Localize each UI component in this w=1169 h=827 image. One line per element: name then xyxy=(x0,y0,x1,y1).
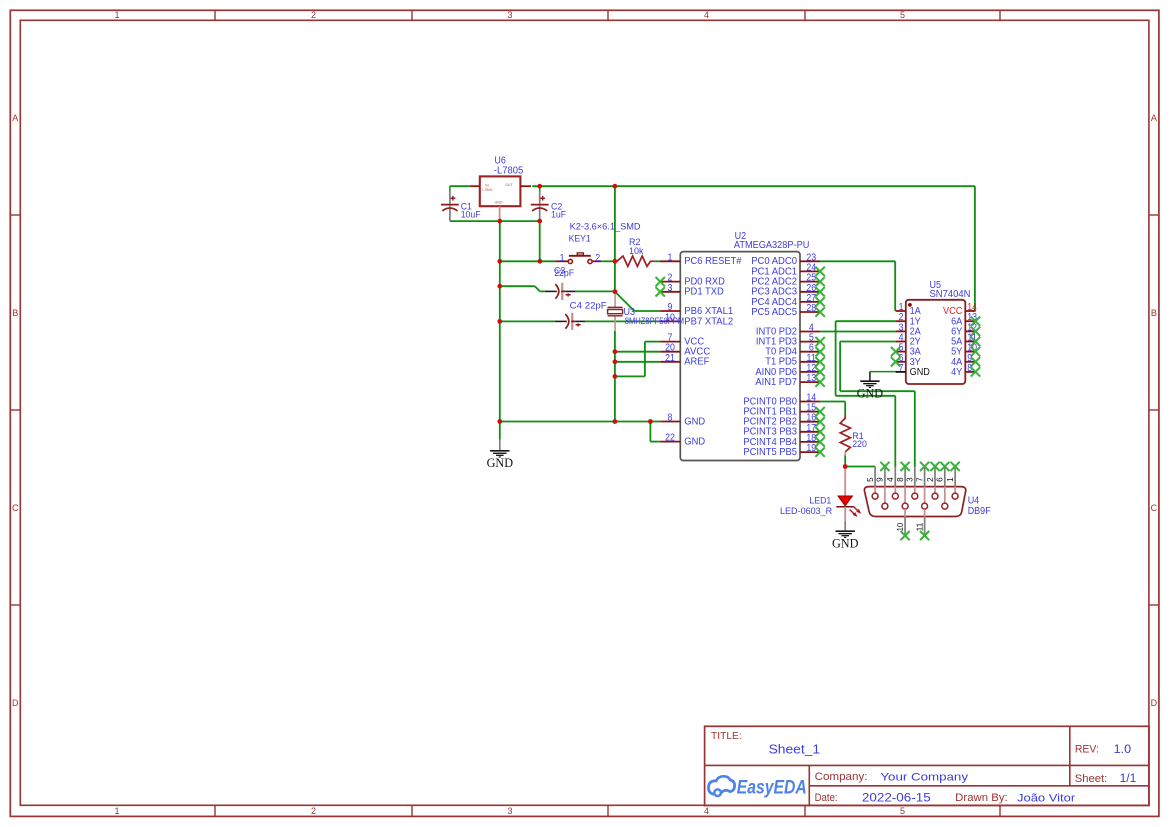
svg-text:3: 3 xyxy=(507,806,512,816)
svg-text:11: 11 xyxy=(915,523,925,532)
svg-text:João Vitor: João Vitor xyxy=(1017,792,1075,804)
svg-text:PC6 RESET#: PC6 RESET# xyxy=(684,256,741,267)
svg-text:GND: GND xyxy=(857,386,884,400)
svg-text:PD1 TXD: PD1 TXD xyxy=(684,287,724,298)
svg-text:8: 8 xyxy=(895,477,905,482)
svg-text:7: 7 xyxy=(899,363,904,374)
svg-text:OUT: OUT xyxy=(505,183,513,187)
svg-text:2: 2 xyxy=(311,806,316,816)
svg-text:GND: GND xyxy=(910,367,930,378)
svg-text:22: 22 xyxy=(665,433,675,444)
svg-text:L7805: L7805 xyxy=(482,188,492,192)
svg-text:10: 10 xyxy=(895,523,905,532)
svg-text:Company:: Company: xyxy=(815,771,868,783)
svg-text:C4 22pF: C4 22pF xyxy=(570,301,607,312)
svg-text:2: 2 xyxy=(311,10,316,20)
svg-text:2: 2 xyxy=(595,253,600,264)
svg-text:9: 9 xyxy=(875,477,885,482)
svg-text:PC5 ADC5: PC5 ADC5 xyxy=(751,307,797,318)
svg-text:A: A xyxy=(12,113,18,123)
svg-text:SN7404N: SN7404N xyxy=(930,289,971,300)
svg-text:4: 4 xyxy=(704,10,709,20)
svg-text:8: 8 xyxy=(668,413,673,424)
svg-text:9: 9 xyxy=(668,302,673,313)
svg-text:Sheet_1: Sheet_1 xyxy=(769,741,821,756)
svg-text:21: 21 xyxy=(665,353,675,364)
svg-text:8MHZ8PF50PPM: 8MHZ8PF50PPM xyxy=(625,316,684,327)
svg-text:2022-06-15: 2022-06-15 xyxy=(862,792,931,804)
svg-text:220: 220 xyxy=(852,439,867,450)
svg-text:TITLE:: TITLE: xyxy=(711,731,742,742)
svg-text:-L7805: -L7805 xyxy=(494,166,524,177)
svg-text:5: 5 xyxy=(900,806,905,816)
svg-text:D: D xyxy=(1151,698,1158,708)
svg-text:EasyEDA: EasyEDA xyxy=(737,778,807,799)
svg-text:Date:: Date: xyxy=(815,792,838,804)
svg-text:Sheet:: Sheet: xyxy=(1075,773,1108,785)
svg-text:K2-3.6×6.1_SMD: K2-3.6×6.1_SMD xyxy=(570,222,641,232)
svg-text:B: B xyxy=(12,308,18,318)
svg-text:1: 1 xyxy=(114,10,119,20)
svg-text:7: 7 xyxy=(914,477,924,482)
svg-text:2: 2 xyxy=(925,477,935,482)
svg-text:PCINT5 PB5: PCINT5 PB5 xyxy=(743,447,797,458)
svg-text:KEY1: KEY1 xyxy=(569,232,591,243)
svg-text:4Y: 4Y xyxy=(951,367,962,378)
svg-text:A: A xyxy=(1151,113,1157,123)
svg-text:4: 4 xyxy=(704,806,709,816)
svg-text:22pF: 22pF xyxy=(554,268,574,279)
svg-text:ATMEGA328P-PU: ATMEGA328P-PU xyxy=(734,240,810,251)
svg-text:3: 3 xyxy=(507,10,512,20)
svg-text:PB6 XTAL1: PB6 XTAL1 xyxy=(684,306,733,317)
svg-text:1.0: 1.0 xyxy=(1114,742,1132,756)
svg-text:10k: 10k xyxy=(629,246,644,257)
svg-text:28: 28 xyxy=(806,303,816,314)
svg-text:GND: GND xyxy=(487,456,514,470)
svg-text:1: 1 xyxy=(114,806,119,816)
svg-text:1/1: 1/1 xyxy=(1120,771,1137,785)
svg-text:13: 13 xyxy=(806,373,816,384)
svg-text:3: 3 xyxy=(905,477,915,482)
svg-text:AIN1 PD7: AIN1 PD7 xyxy=(755,377,797,388)
svg-text:1: 1 xyxy=(560,253,565,264)
svg-text:GND: GND xyxy=(495,201,503,205)
svg-text:1: 1 xyxy=(945,477,955,482)
svg-text:B: B xyxy=(1151,308,1157,318)
svg-text:IN: IN xyxy=(485,183,489,187)
svg-text:C: C xyxy=(12,503,19,513)
svg-text:4: 4 xyxy=(885,477,895,482)
svg-text:AREF: AREF xyxy=(684,357,709,368)
svg-text:GND: GND xyxy=(684,416,705,427)
svg-text:19: 19 xyxy=(806,443,816,454)
svg-text:GND: GND xyxy=(832,536,859,550)
svg-text:5: 5 xyxy=(865,477,875,482)
svg-text:1: 1 xyxy=(668,252,673,263)
svg-text:Drawn By:: Drawn By: xyxy=(955,792,1008,804)
svg-text:U4: U4 xyxy=(968,496,980,507)
svg-text:6: 6 xyxy=(935,477,945,482)
svg-text:5: 5 xyxy=(900,10,905,20)
svg-text:10uF: 10uF xyxy=(461,209,481,220)
svg-text:C: C xyxy=(1151,503,1158,513)
svg-text:3: 3 xyxy=(668,283,673,294)
svg-text:LED1: LED1 xyxy=(809,496,831,507)
svg-text:LED-0603_R: LED-0603_R xyxy=(780,506,832,517)
svg-text:REV:: REV: xyxy=(1075,744,1099,756)
svg-text:DB9F: DB9F xyxy=(968,506,991,517)
svg-text:D: D xyxy=(12,698,19,708)
svg-text:1uF: 1uF xyxy=(551,209,566,220)
svg-text:GND: GND xyxy=(684,437,705,448)
svg-text:Your Company: Your Company xyxy=(880,771,968,783)
svg-text:PB7 XTAL2: PB7 XTAL2 xyxy=(684,316,733,327)
